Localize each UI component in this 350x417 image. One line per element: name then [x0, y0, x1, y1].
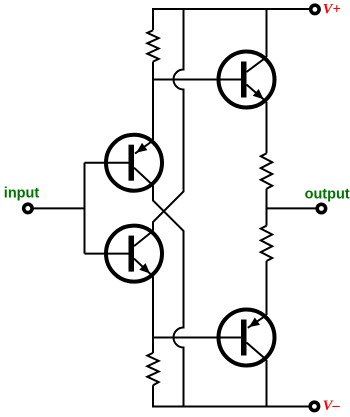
wire V+ rail to Q3 collector (vertical with hop over Q1 base wire) — [153, 9, 184, 231]
terminal output — [317, 204, 325, 212]
svg-text:V+: V+ — [323, 2, 341, 18]
transistor Q3 (NPN, bottom left) — [106, 226, 162, 282]
wire V+ rail to Q1 collector — [266, 9, 268, 57]
wire Q3 emitter down to base node B — [152, 276, 154, 353]
resistor R4 — [147, 353, 158, 385]
transistor Q2 (PNP, top left) — [106, 135, 162, 191]
wire V+ rail (top) with stub to resistor R1 — [153, 9, 311, 30]
wire Q1 emitter to resistor R2 — [266, 102, 268, 153]
terminal V+ — [311, 5, 319, 13]
wire input terminal to base column — [33, 207, 85, 209]
wire base of Q4 (node B to Q4 bar) — [153, 337, 241, 339]
transistor Q4 (PNP, bottom right) — [219, 310, 275, 366]
svg-text:V–: V– — [323, 398, 341, 414]
terminal V- — [310, 402, 318, 410]
wire R2 to R3 (output node) — [266, 189, 268, 226]
resistor R1 — [147, 30, 158, 61]
resistor R3 — [261, 226, 272, 261]
resistor R2 — [261, 153, 272, 188]
wire V- rail (bottom) with stub from R4 — [153, 385, 311, 406]
terminal input — [24, 204, 32, 212]
transistor Q1 (NPN, top right) — [219, 52, 275, 108]
wire base of Q1 (node A to Q1 bar) — [153, 79, 241, 81]
svg-text:output: output — [305, 187, 350, 203]
wire node A down to Q2 emitter — [152, 80, 154, 141]
wire Q2 collector to V- rail (vertical with hop over Q4 base wire) — [153, 185, 184, 406]
svg-text:input: input — [4, 185, 40, 201]
wire base column joining Q2 and Q3 bases — [84, 163, 86, 254]
wire base of Q3 — [85, 253, 129, 255]
wire R3 to Q4 emitter — [266, 261, 268, 315]
wire Q4 collector to V- rail — [266, 360, 268, 407]
wire R1 bottom to base node A — [152, 62, 154, 80]
wire base of Q2 — [85, 162, 129, 164]
wire output node to output terminal — [267, 207, 318, 209]
